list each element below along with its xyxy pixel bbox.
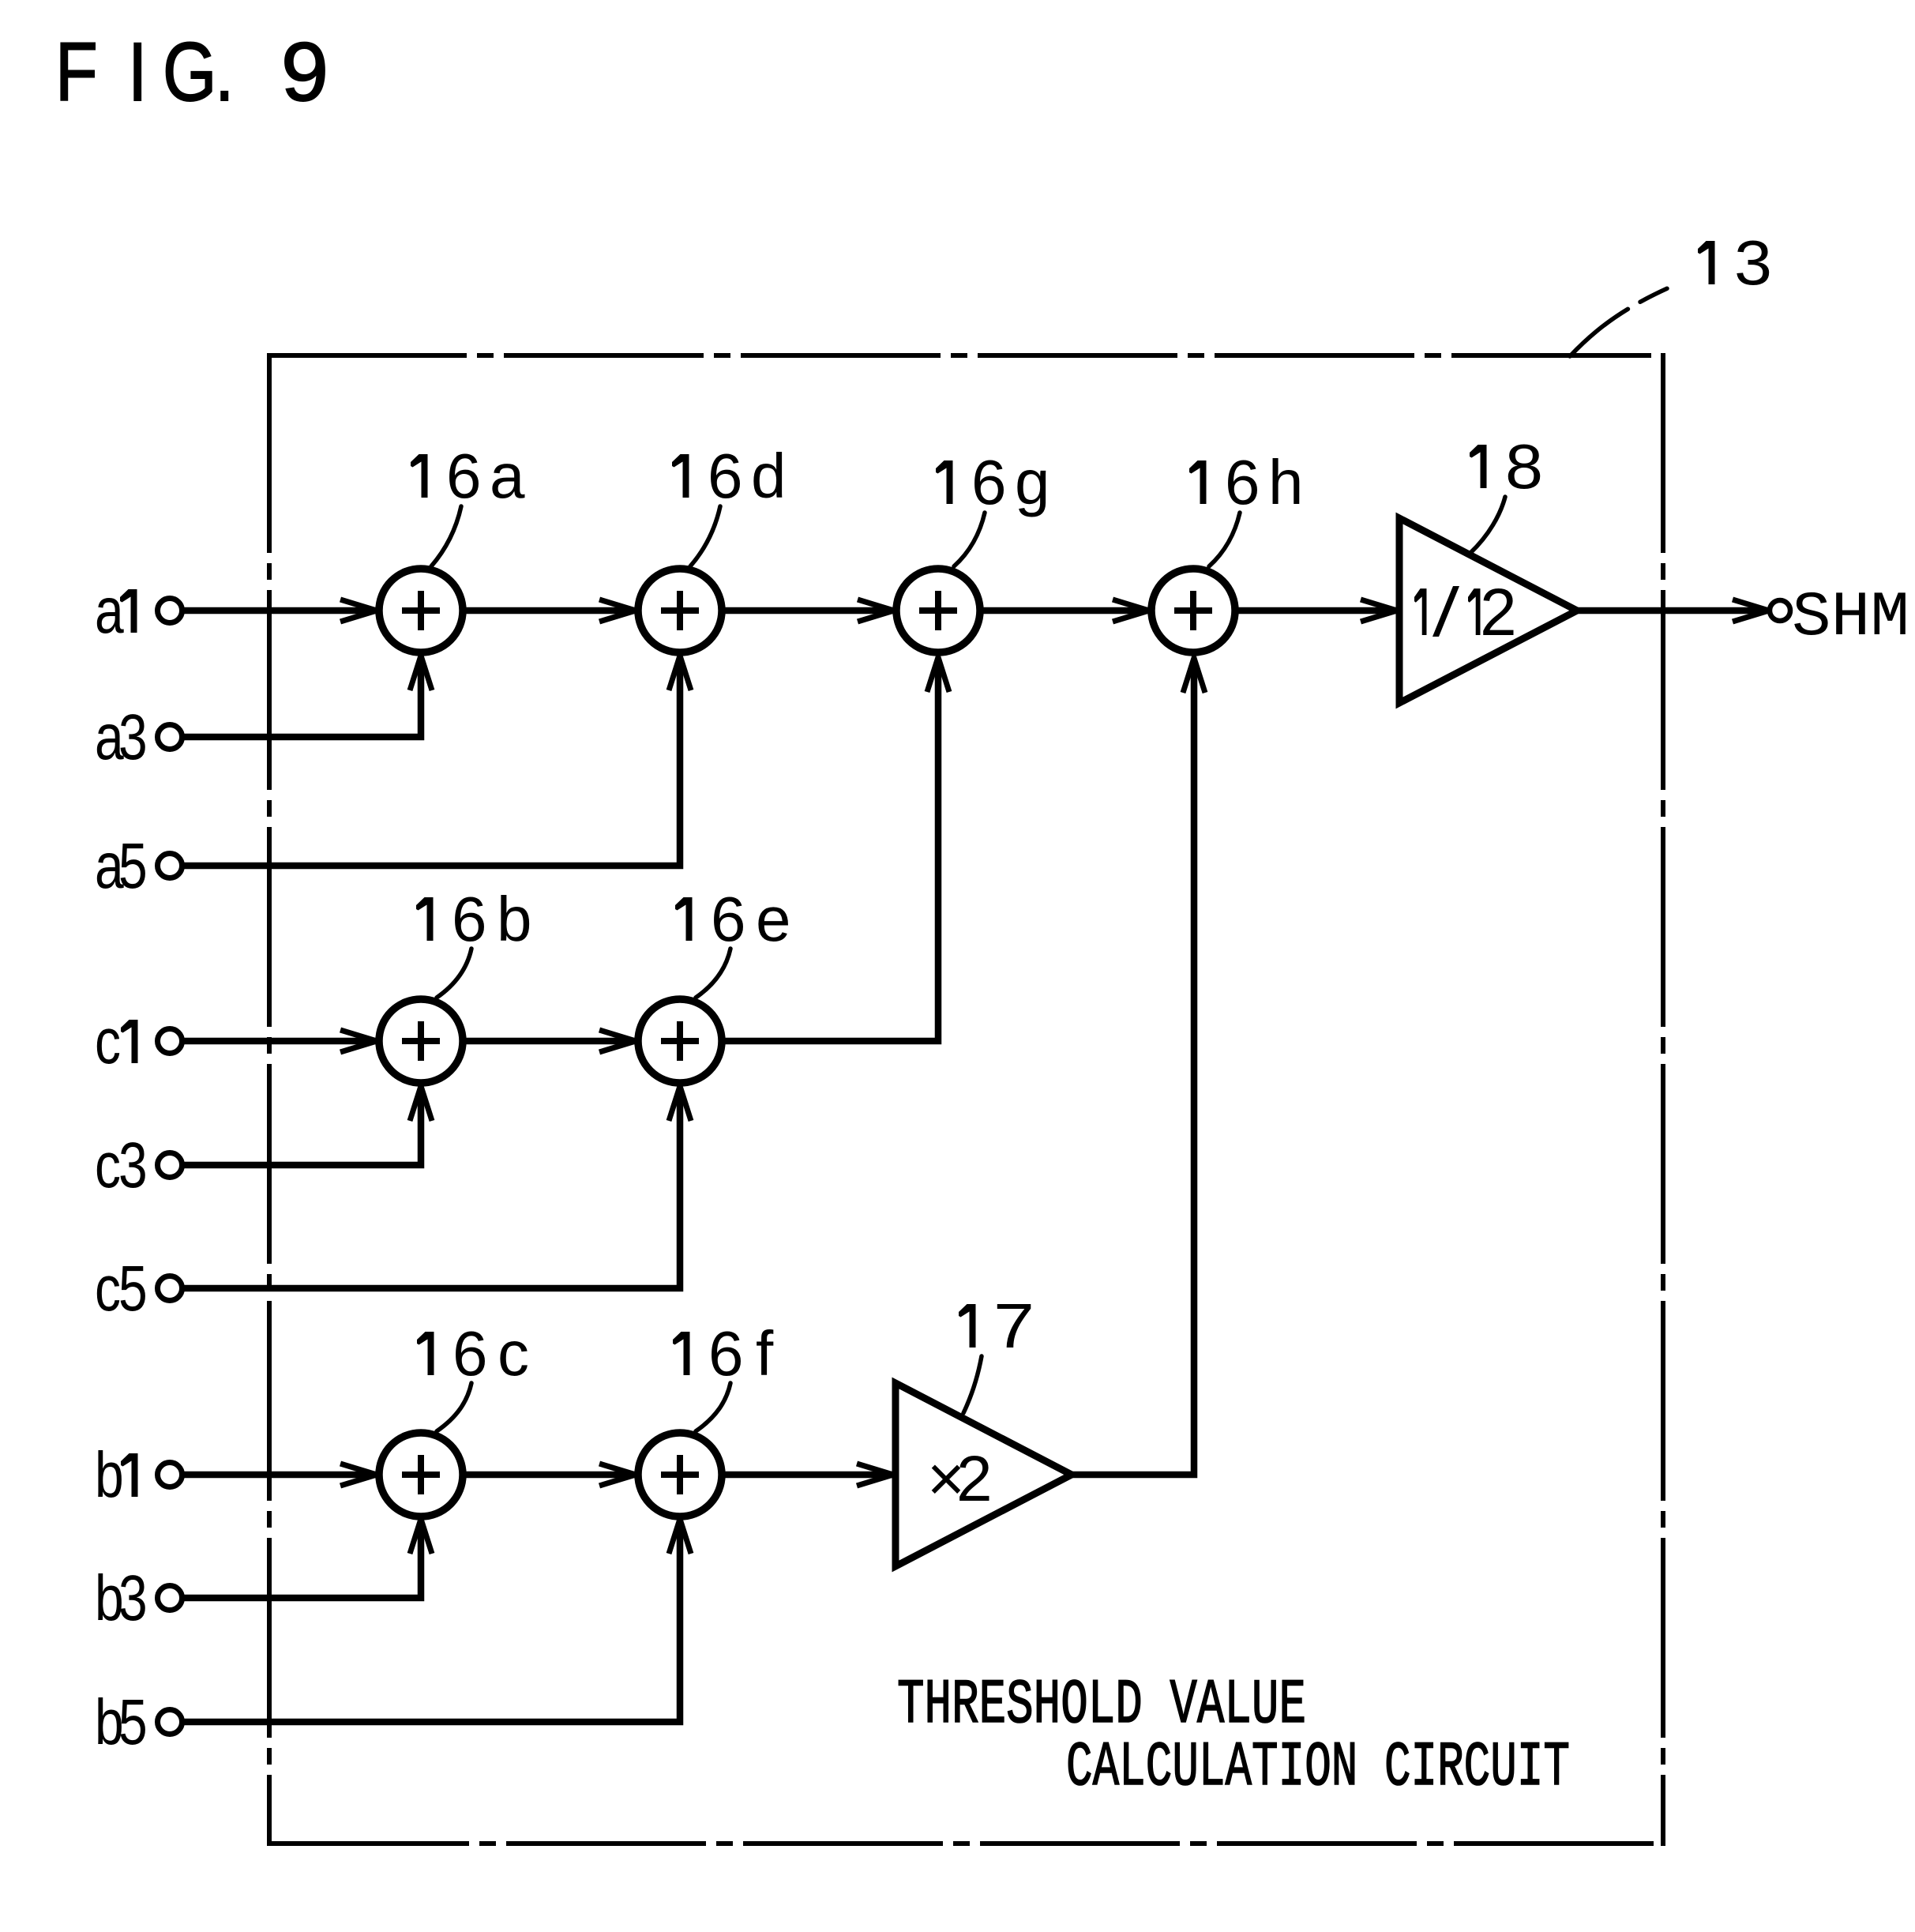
svg-text:2: 2 <box>1480 575 1517 649</box>
svg-text:CALCULATION CIRCUIT: CALCULATION CIRCUIT <box>1066 1732 1570 1804</box>
svg-text:c5: c5 <box>95 1252 148 1324</box>
svg-text:c3: c3 <box>95 1129 148 1201</box>
svg-text:a5: a5 <box>95 829 148 901</box>
svg-text:3: 3 <box>1734 227 1772 298</box>
svg-text:×2: ×2 <box>927 1443 993 1515</box>
svg-text:b3: b3 <box>95 1562 148 1633</box>
svg-text:FIG.: FIG. <box>55 26 234 118</box>
svg-text:8: 8 <box>1505 431 1543 502</box>
svg-text:b5: b5 <box>95 1686 148 1757</box>
svg-text:7: 7 <box>993 1291 1034 1361</box>
svg-text:THRESHOLD VALUE: THRESHOLD VALUE <box>897 1670 1306 1742</box>
svg-text:9: 9 <box>281 26 329 118</box>
svg-text:6f: 6f <box>708 1318 774 1389</box>
svg-text:SHM: SHM <box>1792 582 1909 654</box>
svg-text:a: a <box>95 574 124 646</box>
svg-text:b: b <box>95 1438 124 1510</box>
svg-text:a3: a3 <box>95 701 148 772</box>
svg-text:c: c <box>95 1005 121 1077</box>
